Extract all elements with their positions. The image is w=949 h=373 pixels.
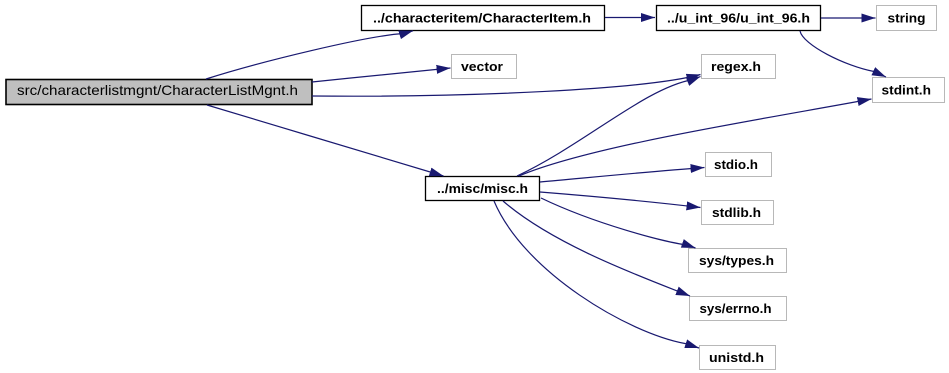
svg-text:../characteritem/CharacterItem: ../characteritem/CharacterItem.h [373, 12, 591, 26]
svg-text:stdlib.h: stdlib.h [712, 206, 761, 220]
svg-text:string: string [888, 12, 926, 26]
svg-text:src/characterlistmgnt/Characte: src/characterlistmgnt/CharacterListMgnt.… [17, 82, 298, 98]
svg-text:../misc/misc.h: ../misc/misc.h [437, 182, 528, 196]
svg-text:unistd.h: unistd.h [709, 351, 764, 365]
svg-text:stdint.h: stdint.h [882, 84, 932, 98]
svg-text:sys/types.h: sys/types.h [699, 254, 774, 268]
svg-text:regex.h: regex.h [711, 60, 761, 74]
svg-text:../u_int_96/u_int_96.h: ../u_int_96/u_int_96.h [667, 12, 810, 26]
svg-text:vector: vector [461, 60, 503, 74]
svg-text:sys/errno.h: sys/errno.h [700, 302, 772, 316]
svg-text:stdio.h: stdio.h [714, 158, 758, 172]
